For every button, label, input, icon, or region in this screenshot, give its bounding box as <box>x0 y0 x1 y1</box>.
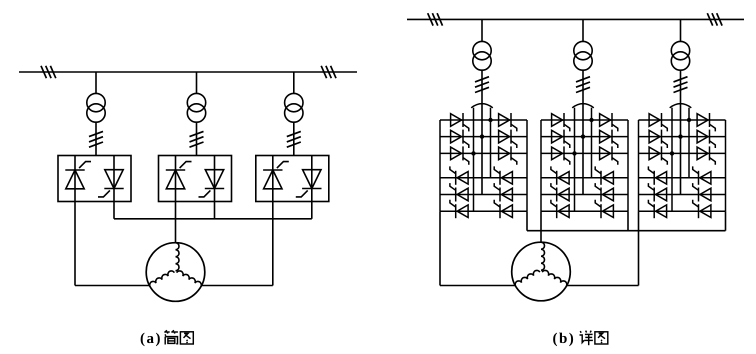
svg-text:(b): (b) <box>552 331 575 347</box>
svg-text:(a): (a) <box>140 331 162 347</box>
